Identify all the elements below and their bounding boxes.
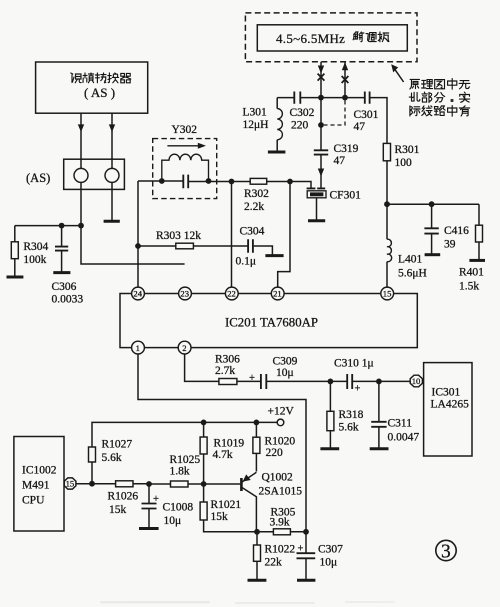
capacitor C302 <box>277 92 314 132</box>
svg-text:23: 23 <box>180 289 189 299</box>
svg-text:1: 1 <box>136 343 140 353</box>
svg-text:IC1002: IC1002 <box>22 465 57 477</box>
svg-text:0.1μ: 0.1μ <box>236 256 257 268</box>
resistor R401 <box>459 204 484 292</box>
pin 15 <box>381 287 394 300</box>
svg-text:C1008: C1008 <box>163 502 194 514</box>
junction node C307 tap <box>303 529 309 535</box>
glyph 部 <box>422 92 432 102</box>
svg-text:21: 21 <box>273 289 282 299</box>
ground for R318 <box>320 447 339 450</box>
ground for C416 <box>425 253 441 256</box>
svg-text:39: 39 <box>444 239 456 251</box>
resistor R1019 <box>200 422 244 484</box>
junction node <box>159 178 165 184</box>
svg-text:47: 47 <box>334 155 346 167</box>
svg-text:3: 3 <box>441 542 451 563</box>
svg-text:10μ: 10μ <box>164 515 182 527</box>
svg-text:+: + <box>249 373 255 384</box>
pin 2 <box>178 341 191 354</box>
junction node base tap <box>201 481 207 487</box>
SECTION: bottom <box>14 354 472 581</box>
SECTION: IC201 <box>120 287 417 354</box>
svg-text:R303 12k: R303 12k <box>156 230 201 242</box>
glyph 调 <box>366 33 376 42</box>
pin 22 <box>225 287 238 300</box>
svg-text:Q1002: Q1002 <box>262 472 294 484</box>
svg-text:4.7k: 4.7k <box>213 449 233 461</box>
capacitor in Y302 <box>183 175 188 189</box>
ceramic filter CF301 <box>307 188 361 220</box>
svg-text:5.6k: 5.6k <box>339 422 359 434</box>
transistor Q1002 <box>204 472 303 532</box>
svg-text:22: 22 <box>227 289 236 299</box>
glyph 视 <box>71 73 81 83</box>
svg-text:R301: R301 <box>395 144 420 156</box>
svg-text:L401: L401 <box>398 254 423 266</box>
junction node <box>342 95 348 101</box>
wire pin2 to audio row <box>185 354 219 381</box>
junction node <box>287 179 293 185</box>
junction node <box>229 179 235 185</box>
glyph 分 <box>435 93 445 103</box>
svg-text:R306: R306 <box>215 354 240 366</box>
ground for C306 <box>53 271 70 274</box>
svg-text:R304: R304 <box>23 241 48 253</box>
ground for C311 <box>370 447 389 450</box>
junction node <box>384 201 390 207</box>
svg-text:R1021: R1021 <box>211 499 242 511</box>
svg-text:1.8k: 1.8k <box>170 466 190 478</box>
svg-text:2SA1015: 2SA1015 <box>259 486 303 498</box>
scan smudges bottom <box>100 601 395 604</box>
wire demod left lead with down arrow <box>318 62 324 98</box>
svg-text:R1027: R1027 <box>102 439 133 451</box>
wire node row R304/C306 <box>15 225 81 227</box>
capacitor C306 <box>52 226 84 306</box>
svg-text:100: 100 <box>395 157 413 169</box>
svg-text:5.6μH: 5.6μH <box>398 268 427 280</box>
svg-text:4.5~6.5MHz: 4.5~6.5MHz <box>276 31 345 46</box>
block 视频转换器 (AS) video converter box <box>36 62 148 113</box>
capacitor C301 <box>354 92 379 134</box>
X mark right lead <box>342 76 349 83</box>
inductor in Y302 <box>162 154 209 181</box>
wire arrow left from converter <box>78 113 84 168</box>
svg-text:3.9k: 3.9k <box>270 517 290 529</box>
svg-text:IC201 TA7680AP: IC201 TA7680AP <box>225 316 318 330</box>
svg-text:24: 24 <box>133 289 142 299</box>
resistor R1021 <box>200 484 257 532</box>
wire pin22 riser <box>231 182 233 288</box>
capacitor C304 <box>236 226 273 268</box>
wire R302 to CF301 node <box>267 182 311 189</box>
wire C319 feed <box>320 98 322 150</box>
pin 1 <box>132 341 145 354</box>
junction node on dashed <box>318 122 324 128</box>
arrow inside Y302 <box>167 143 206 149</box>
svg-text:C416: C416 <box>444 225 469 237</box>
junction node <box>318 95 324 101</box>
glyph 原 <box>410 79 420 89</box>
svg-text:C302: C302 <box>290 107 315 119</box>
resistor R318 <box>327 381 364 448</box>
pin 15 of IC1002 <box>64 478 76 489</box>
ground for right jack <box>104 220 120 223</box>
svg-text:Y302: Y302 <box>172 124 198 136</box>
+12V supply terminal <box>256 406 294 426</box>
junction node <box>429 201 435 207</box>
wire pin1 to +12V rail corner <box>138 354 306 532</box>
IC301 LA4265 body <box>424 363 472 456</box>
wire pin24 riser <box>137 181 139 287</box>
glyph 解 <box>353 32 364 42</box>
svg-text:LA4265: LA4265 <box>431 399 470 411</box>
glyph 际 <box>410 106 420 116</box>
svg-text:22k: 22k <box>265 557 283 569</box>
svg-text:+: + <box>298 544 304 555</box>
glyph 中 (line3) <box>448 106 457 117</box>
capacitor C319 <box>314 143 359 188</box>
resistor R306 <box>215 354 240 385</box>
dashed net segment <box>324 101 345 126</box>
svg-text:15: 15 <box>383 289 392 299</box>
pin 21 <box>271 287 284 300</box>
SECTION: middle Y302 / R302 / CF301 <box>135 124 361 287</box>
ground for R401 <box>469 259 485 262</box>
resistor R305 <box>257 507 306 535</box>
svg-text:IC301: IC301 <box>432 387 461 399</box>
wire arrow right from converter <box>109 113 115 168</box>
annotation arrow to demod board <box>391 64 403 82</box>
glyph 频 <box>83 73 94 83</box>
svg-text:15k: 15k <box>211 511 229 523</box>
ground for C1008 <box>139 527 159 530</box>
glyph 实 <box>460 92 470 102</box>
junction node R318 tap <box>328 379 334 385</box>
svg-text:R302: R302 <box>244 188 269 200</box>
glyph 有 <box>459 106 469 116</box>
wire left jack down to node <box>81 182 185 264</box>
junction node collector <box>254 529 260 535</box>
junction node R1019 top <box>201 420 207 426</box>
svg-text:2.2k: 2.2k <box>244 201 264 213</box>
glyph 线 <box>422 106 432 116</box>
svg-text:R401: R401 <box>459 267 484 279</box>
pin 10 of IC301 <box>410 375 422 387</box>
wire pin15 to node <box>76 483 92 485</box>
svg-text:C306: C306 <box>52 281 77 293</box>
svg-text:12μH: 12μH <box>243 119 269 131</box>
glyph 换 <box>108 73 119 83</box>
wire detector out row y204 <box>387 203 479 205</box>
glyph 板 <box>378 32 389 42</box>
ground for L301 <box>268 151 286 154</box>
svg-text:R1025: R1025 <box>170 454 201 466</box>
connector block AS jacks <box>64 159 125 189</box>
resistor R303 <box>138 230 248 249</box>
glyph 转 <box>95 73 106 83</box>
svg-text:C307: C307 <box>318 544 343 556</box>
svg-text:+: + <box>355 384 361 395</box>
svg-text:R1022: R1022 <box>265 544 296 556</box>
pin 23 <box>179 287 192 300</box>
ground for C304 <box>265 254 283 257</box>
IC1002 M491 CPU body <box>14 437 64 532</box>
svg-text:C304: C304 <box>240 226 265 238</box>
svg-text:15k: 15k <box>109 504 127 516</box>
svg-text:220: 220 <box>291 120 309 132</box>
junction node <box>59 223 65 229</box>
ground for CF301 <box>308 219 325 222</box>
svg-text:R318: R318 <box>339 409 364 421</box>
capacitor C309 electrolytic <box>237 356 298 390</box>
wire demod right lead with up arrow <box>342 62 348 97</box>
X mark left lead <box>318 74 325 81</box>
glyph 理 <box>422 80 433 89</box>
svg-text:C311: C311 <box>388 418 413 430</box>
resistor R1020 <box>253 422 296 471</box>
resistor R1026 <box>92 481 149 516</box>
svg-text:M491: M491 <box>22 480 50 492</box>
svg-text:100k: 100k <box>23 254 46 266</box>
junction node C311 tap <box>376 379 382 385</box>
page number 3 circled <box>436 540 456 562</box>
capacitor C310 electrolytic <box>334 358 374 395</box>
inductor L301 <box>243 98 283 152</box>
block 4.5~6.5MHz demod board inner box <box>257 25 407 51</box>
svg-text:47: 47 <box>354 121 366 133</box>
svg-text:+12V: +12V <box>268 406 295 418</box>
resistor R301 <box>383 143 419 204</box>
junction node <box>78 223 84 229</box>
capacitor C416 <box>424 204 469 254</box>
glyph 路 <box>435 106 446 115</box>
ground for R304 <box>7 276 24 279</box>
glyph 无 <box>459 81 470 89</box>
svg-text:L301: L301 <box>243 107 268 119</box>
glyph ． <box>451 100 453 102</box>
wire C309 to C310 <box>266 380 347 382</box>
resistor R1027 <box>89 422 257 483</box>
wire main row y181 <box>138 180 250 183</box>
svg-text:CPU: CPU <box>22 495 45 507</box>
svg-text:0.0047: 0.0047 <box>388 432 420 444</box>
glyph 中 <box>448 79 457 90</box>
wire pin21 riser <box>278 182 290 288</box>
resistor R1022 <box>254 532 296 580</box>
svg-text:2.7k: 2.7k <box>215 365 235 377</box>
svg-text:CF301: CF301 <box>330 190 362 202</box>
wire signal row y97 <box>301 98 388 144</box>
capacitor C1008 electrolytic <box>142 484 194 528</box>
svg-text:R1019: R1019 <box>214 438 245 450</box>
junction node C1008 tap <box>146 481 152 487</box>
wire C310 to pin10 <box>352 380 410 382</box>
wire right jack down <box>111 182 113 220</box>
SECTION: demod board top-right <box>243 13 486 293</box>
annotation text 原理图中无 此部分．实 际线路中有 <box>409 79 470 117</box>
resistor R304 <box>11 226 48 277</box>
svg-text:10μ: 10μ <box>320 557 338 569</box>
junction node R303 tap <box>135 243 141 249</box>
svg-text:1.5k: 1.5k <box>459 281 479 293</box>
pin 24 <box>132 287 145 300</box>
svg-text:+: + <box>153 494 159 505</box>
capacitor C307 electrolytic <box>297 532 344 580</box>
glyph 此 <box>409 92 420 101</box>
svg-text:0.0033: 0.0033 <box>52 294 84 306</box>
svg-text:(AS): (AS) <box>26 171 50 185</box>
ground for R1022 <box>248 579 267 582</box>
svg-text:5.6k: 5.6k <box>102 452 122 464</box>
resistor R302 <box>244 178 269 213</box>
block 4.5~6.5MHz demod board dashed outline <box>245 13 417 62</box>
resistor R1025 <box>149 454 204 487</box>
svg-text:C301: C301 <box>354 109 379 121</box>
SECTION: top-left video converter <box>7 62 185 306</box>
svg-text:C309: C309 <box>273 356 298 368</box>
svg-text:C319: C319 <box>334 143 359 155</box>
glyph 图 <box>435 80 445 89</box>
junction node R1020 top <box>254 420 260 426</box>
glyph 器 <box>121 73 131 82</box>
svg-text:2: 2 <box>182 343 186 353</box>
capacitor C311 <box>371 381 419 448</box>
svg-text:15: 15 <box>66 479 75 489</box>
svg-text:C310 1μ: C310 1μ <box>334 358 374 370</box>
svg-text:( AS ): ( AS ) <box>84 85 115 100</box>
svg-text:10μ: 10μ <box>276 367 294 379</box>
svg-text:R1020: R1020 <box>265 436 296 448</box>
ground for C307 <box>297 579 315 582</box>
junction node R1027 tap <box>89 481 95 487</box>
svg-text:220: 220 <box>266 447 284 459</box>
resonator Y302 dashed outline <box>153 139 217 199</box>
inductor L401 <box>387 204 427 287</box>
svg-text:10: 10 <box>412 376 421 386</box>
IC201 TA7680AP body <box>120 294 417 348</box>
junction node <box>206 178 212 184</box>
svg-text:R1026: R1026 <box>108 491 139 503</box>
